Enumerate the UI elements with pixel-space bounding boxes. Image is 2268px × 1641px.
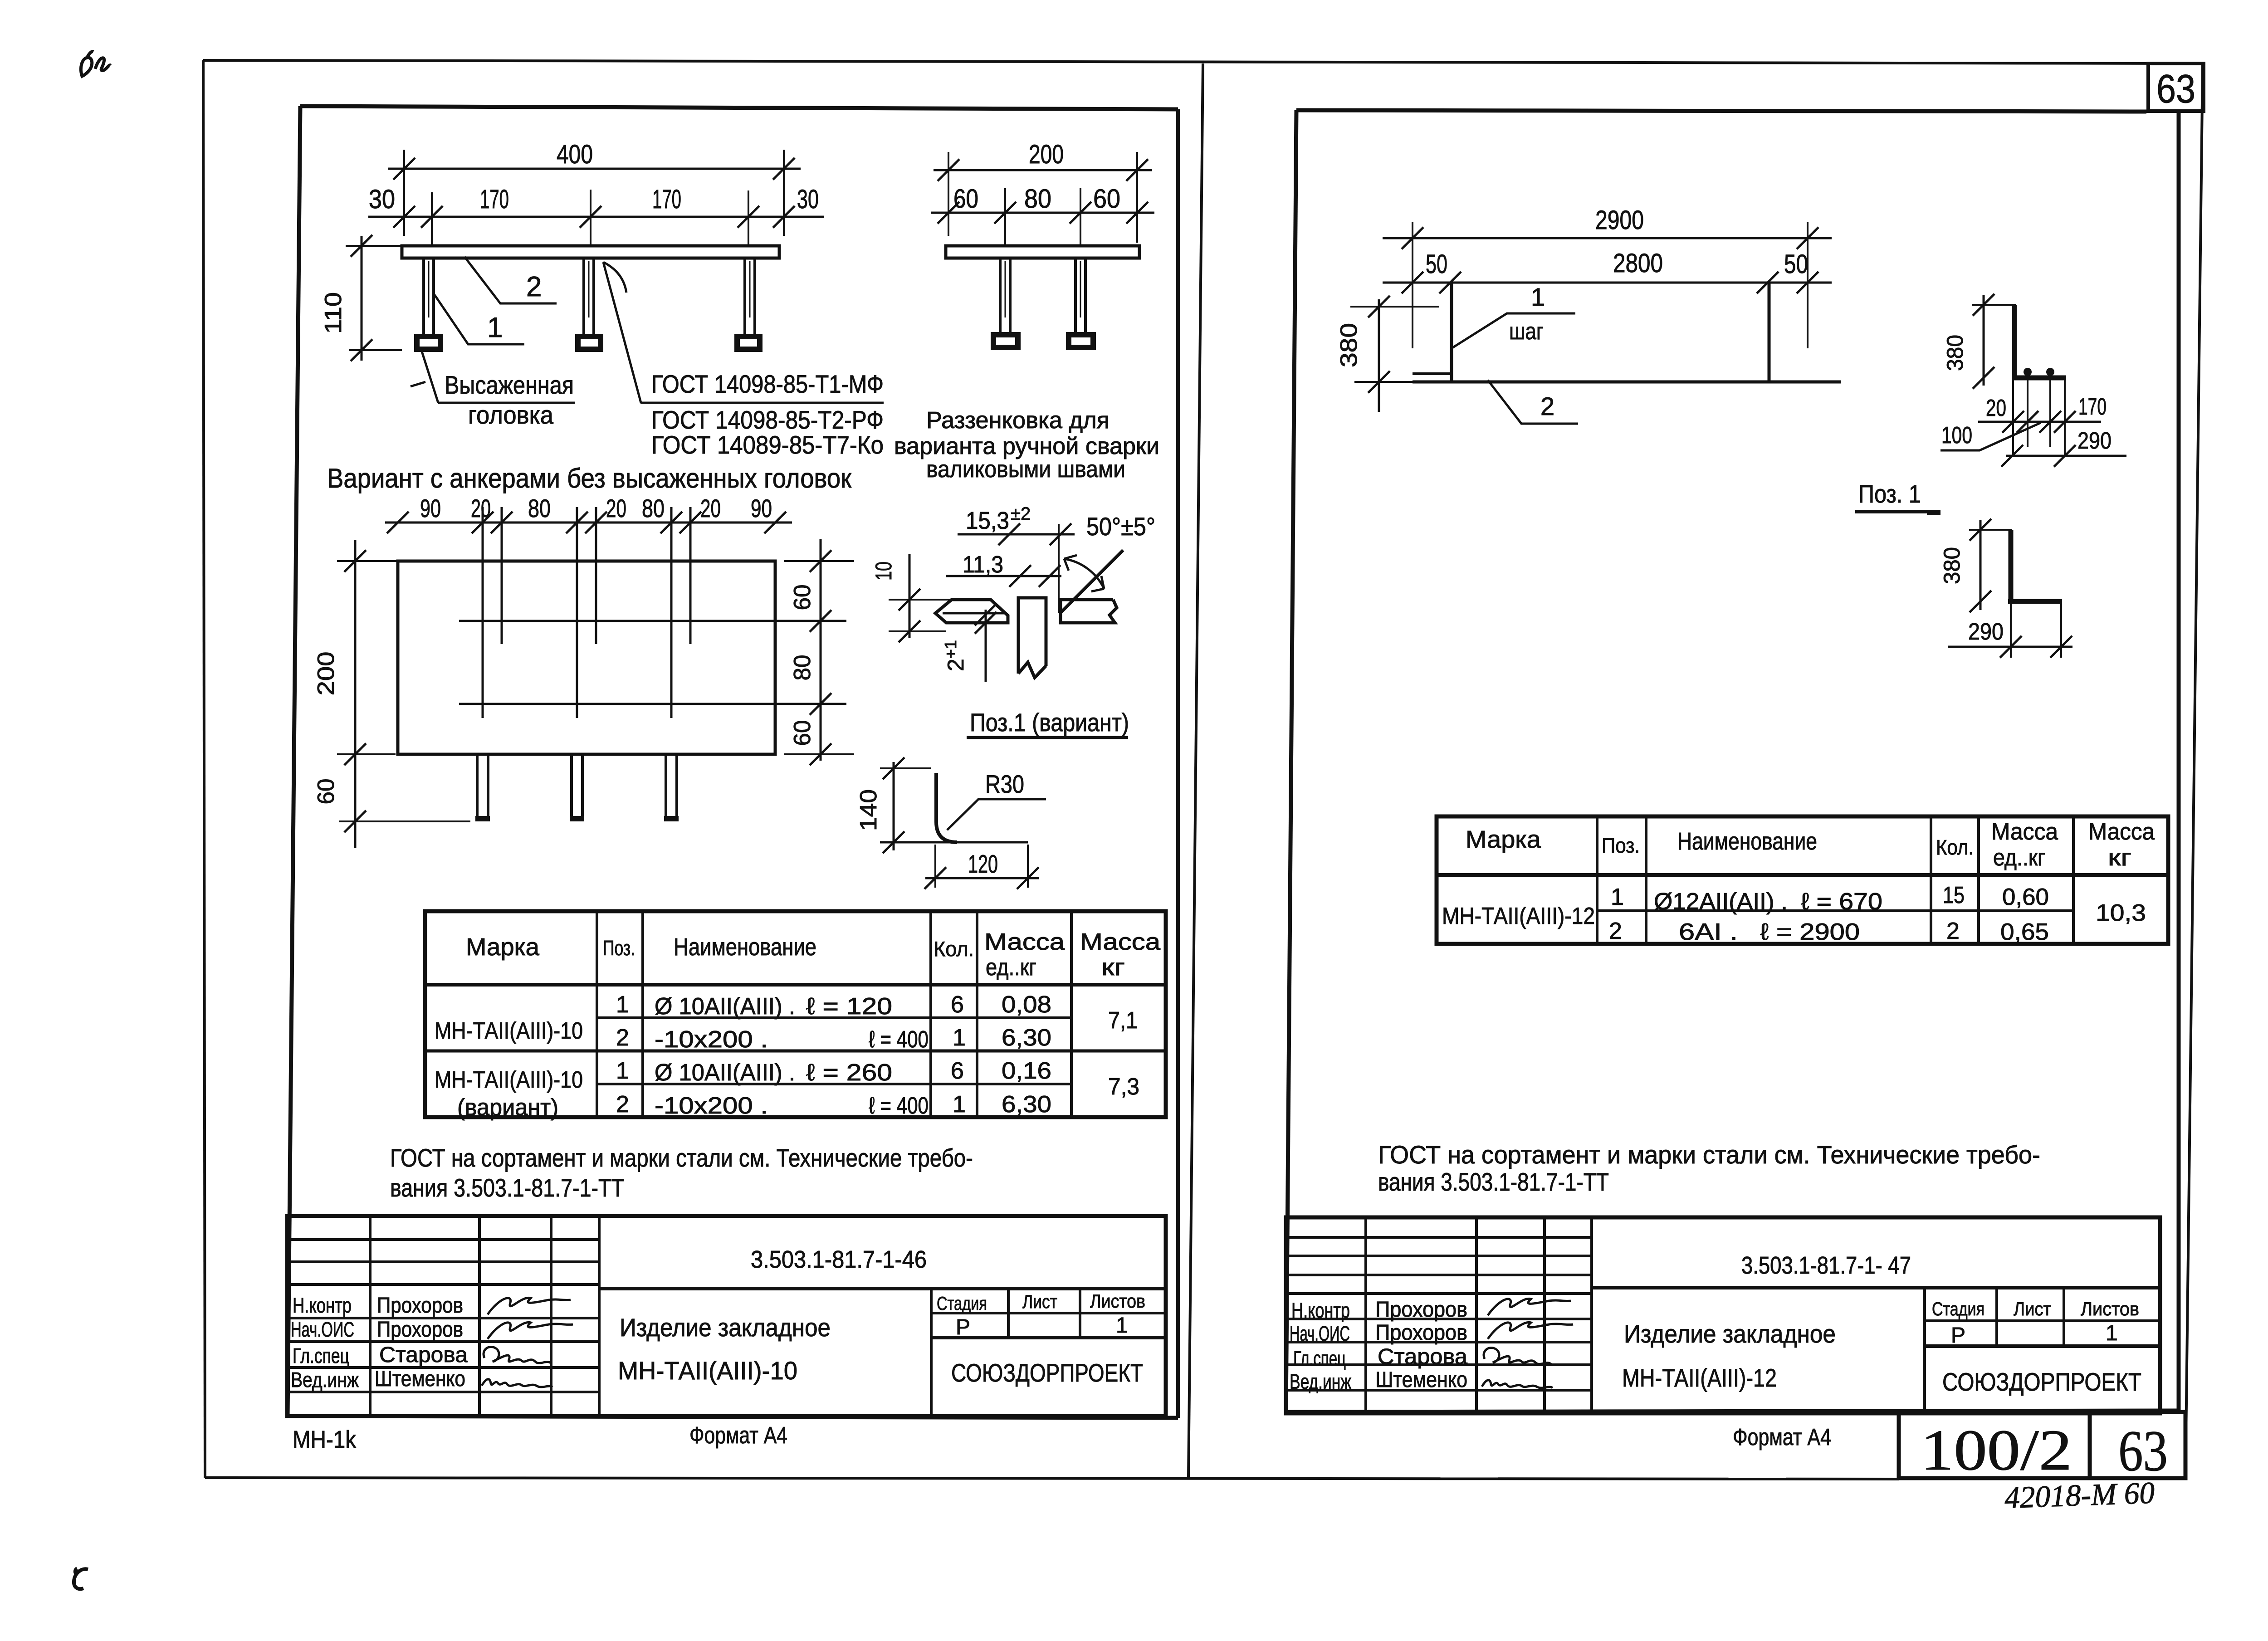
dimension 380 elevation bbox=[1378, 299, 1380, 412]
handwritten mark bottom-left bbox=[74, 1568, 88, 1589]
svg-text:Ø 10АII(АIII) .: Ø 10АII(АIII) . bbox=[655, 1060, 795, 1086]
svg-text:290: 290 bbox=[1968, 619, 2004, 645]
svg-text:1: 1 bbox=[953, 1025, 966, 1051]
svg-text:Н.контр: Н.контр bbox=[293, 1294, 352, 1317]
svg-text:Масса: Масса bbox=[984, 929, 1065, 955]
svg-text:290: 290 bbox=[2077, 428, 2112, 454]
svg-text:200: 200 bbox=[313, 652, 339, 696]
svg-text:0,60: 0,60 bbox=[2002, 884, 2049, 910]
right title block signature 2 bbox=[1488, 1322, 1573, 1339]
svg-text:11,3: 11,3 bbox=[963, 552, 1003, 578]
plate plan view bbox=[398, 561, 775, 754]
sheet divider line bbox=[1188, 63, 1203, 1478]
svg-text:15: 15 bbox=[1943, 882, 1965, 908]
svg-text:R30: R30 bbox=[985, 770, 1024, 798]
svg-text:Прохоров: Прохоров bbox=[377, 1318, 463, 1342]
svg-text:±2: ±2 bbox=[1011, 504, 1031, 524]
svg-text:вания 3.503.1-81.7-1-ТТ: вания 3.503.1-81.7-1-ТТ bbox=[1378, 1167, 1609, 1196]
leader label 2 bbox=[464, 257, 557, 303]
svg-text:2: 2 bbox=[1540, 392, 1554, 420]
dimension 290 upper detail bbox=[2006, 455, 2126, 457]
dimension line 400 bbox=[388, 168, 801, 170]
right title block rows left section bbox=[1286, 1236, 1592, 1239]
anchor stud 2 bbox=[582, 258, 585, 334]
left title block signature 4 bbox=[482, 1379, 552, 1387]
svg-text:Н.контр: Н.контр bbox=[1291, 1299, 1350, 1322]
anchor stud 1 bbox=[422, 258, 425, 334]
leader 100 bbox=[1941, 423, 2041, 450]
left title block right section bbox=[930, 1289, 933, 1417]
svg-text:80: 80 bbox=[528, 494, 551, 523]
svg-text:Наименование: Наименование bbox=[1677, 828, 1817, 855]
svg-text:6АI .: 6АI . bbox=[1679, 919, 1738, 945]
detail bar horizontal leg lower bbox=[2008, 599, 2062, 604]
svg-text:60: 60 bbox=[953, 184, 978, 214]
end view head 1 bbox=[993, 335, 1018, 347]
svg-text:50°±5°: 50°±5° bbox=[1086, 512, 1155, 541]
svg-text:30: 30 bbox=[797, 185, 819, 214]
svg-text:50: 50 bbox=[1784, 249, 1808, 279]
svg-text:Штеменко: Штеменко bbox=[1375, 1368, 1467, 1392]
detail bar vertical leg upper bbox=[2012, 305, 2017, 378]
svg-text:ГОСТ 14098-85-Т1-МФ: ГОСТ 14098-85-Т1-МФ bbox=[651, 370, 884, 398]
handwritten mark top-left bbox=[81, 52, 93, 76]
svg-text:Стадия: Стадия bbox=[937, 1293, 987, 1314]
svg-text:1: 1 bbox=[616, 991, 629, 1018]
svg-text:Формат А4: Формат А4 bbox=[689, 1422, 787, 1449]
sheet outer border left bbox=[203, 60, 205, 1478]
extension lines elevation bbox=[1412, 222, 1413, 348]
anchor tail 3 below plate bbox=[665, 754, 667, 816]
svg-text:МН-ТАII(АIII)-12: МН-ТАII(АIII)-12 bbox=[1622, 1363, 1777, 1392]
left title block number separator bbox=[599, 1287, 1166, 1290]
svg-text:Поз. 1: Поз. 1 bbox=[1858, 479, 1921, 508]
svg-text:ГОСТ 14098-85-Т2-РФ: ГОСТ 14098-85-Т2-РФ bbox=[651, 405, 884, 434]
detail cross rod dots bbox=[2024, 368, 2032, 376]
svg-text:Ø12АII(АII) .: Ø12АII(АII) . bbox=[1654, 889, 1788, 915]
svg-text:Поз.1 (вариант): Поз.1 (вариант) bbox=[970, 708, 1129, 737]
left plate section with countersink bbox=[935, 600, 1008, 623]
dimension 380 lower detail bbox=[1980, 520, 1982, 610]
dimension 290 lower detail bbox=[1948, 646, 2072, 648]
dimension 140 vertical bbox=[893, 762, 895, 850]
svg-text:7,1: 7,1 bbox=[1108, 1007, 1138, 1034]
leader to upset head label bbox=[422, 352, 438, 403]
dimension line 200 end view bbox=[934, 169, 1152, 171]
svg-text:Вед.инж: Вед.инж bbox=[1290, 1370, 1351, 1393]
sheet outer border top bbox=[203, 60, 2203, 63]
extension line angle vertex bbox=[1058, 524, 1060, 613]
svg-text:3.503.1-81.7-1- 47: 3.503.1-81.7-1- 47 bbox=[1741, 1252, 1911, 1279]
leader label 1 shag bbox=[1452, 313, 1575, 348]
inventory box 100/2 bbox=[1899, 1412, 2090, 1478]
svg-text:ГОСТ на сортамент и марки стал: ГОСТ на сортамент и марки стали см. Техн… bbox=[1378, 1140, 2040, 1169]
svg-text:80: 80 bbox=[1024, 184, 1051, 214]
detail bar horizontal leg upper bbox=[2012, 376, 2066, 381]
svg-text:50: 50 bbox=[1426, 249, 1447, 279]
svg-text:Штеменко: Штеменко bbox=[375, 1367, 465, 1391]
svg-text:1: 1 bbox=[2106, 1321, 2118, 1345]
left table column lines bbox=[596, 911, 598, 1117]
svg-text:ℓ = 260: ℓ = 260 bbox=[806, 1060, 892, 1086]
svg-text:3.503.1-81.7-1-46: 3.503.1-81.7-1-46 bbox=[751, 1246, 927, 1273]
svg-text:100/2: 100/2 bbox=[1921, 1418, 2072, 1482]
svg-text:ℓ = 120: ℓ = 120 bbox=[806, 993, 892, 1020]
end view head 2 bbox=[1069, 335, 1093, 347]
svg-text:Раззенковка для: Раззенковка для bbox=[926, 407, 1110, 434]
svg-text:шаг: шаг bbox=[1509, 318, 1544, 345]
svg-text:42018-М 60: 42018-М 60 bbox=[2004, 1475, 2155, 1515]
right title block number separator bbox=[1592, 1286, 2160, 1289]
svg-text:МН-ТАII(АIII)-10: МН-ТАII(АIII)-10 bbox=[435, 1018, 583, 1044]
svg-text:Старова: Старова bbox=[379, 1343, 468, 1367]
svg-text:Р: Р bbox=[956, 1315, 970, 1339]
svg-text:Старова: Старова bbox=[1378, 1345, 1467, 1369]
svg-text:Поз.: Поз. bbox=[1602, 834, 1640, 857]
svg-text:ℓ = 670: ℓ = 670 bbox=[1801, 889, 1882, 915]
svg-text:2: 2 bbox=[616, 1025, 629, 1051]
dimension 110 vertical bbox=[361, 236, 363, 361]
anchor rod section middle bbox=[1018, 598, 1046, 678]
right title block columns bbox=[1364, 1217, 1367, 1413]
plan left dimension 200 and 60 bbox=[354, 540, 357, 848]
anchor head 1 (upset head) bbox=[417, 337, 440, 349]
sheet outer border right bbox=[2185, 63, 2203, 1478]
svg-text:Масса: Масса bbox=[2088, 819, 2155, 845]
svg-text:1: 1 bbox=[616, 1058, 629, 1084]
anchor tail 2 below plate bbox=[570, 754, 573, 816]
page number box 63 top right bbox=[2148, 63, 2204, 111]
svg-text:60: 60 bbox=[313, 779, 339, 805]
dimension 15.3 +-2 bbox=[958, 533, 1075, 536]
svg-text:2: 2 bbox=[1609, 918, 1622, 944]
svg-text:-10x200 .: -10x200 . bbox=[655, 1026, 768, 1053]
svg-text:Марка: Марка bbox=[1466, 826, 1541, 853]
svg-text:100: 100 bbox=[1941, 422, 1972, 449]
right title block frame bbox=[1286, 1217, 2160, 1413]
svg-text:20: 20 bbox=[471, 494, 491, 523]
anchor head 3 bbox=[737, 337, 760, 349]
svg-text:Гл.спец: Гл.спец bbox=[293, 1344, 349, 1367]
svg-text:Наименование: Наименование bbox=[674, 933, 816, 961]
plan anchor lines middle pair bbox=[576, 507, 578, 718]
svg-text:Кол.: Кол. bbox=[1936, 835, 1974, 859]
left sheet inner frame bbox=[300, 106, 1178, 109]
svg-text:15,3: 15,3 bbox=[966, 507, 1009, 534]
dimension 120 bbox=[925, 877, 1039, 879]
angle arc 50 deg bbox=[1064, 559, 1104, 589]
svg-text:63: 63 bbox=[2118, 1419, 2168, 1483]
right plate section with bevel weld bbox=[1061, 550, 1123, 613]
svg-text:Ø 10АII(АIII) .: Ø 10АII(АIII) . bbox=[655, 993, 795, 1020]
svg-text:кг: кг bbox=[1101, 954, 1125, 981]
svg-text:Гл.спец: Гл.спец bbox=[1293, 1347, 1346, 1370]
svg-text:10: 10 bbox=[871, 562, 896, 581]
svg-text:Марка: Марка bbox=[466, 933, 540, 961]
sheet outer border bottom bbox=[205, 1478, 1899, 1479]
svg-text:6,30: 6,30 bbox=[1002, 1025, 1051, 1051]
svg-text:МН-ТАII(АIII)-10: МН-ТАII(АIII)-10 bbox=[618, 1356, 797, 1385]
svg-text:80: 80 bbox=[789, 655, 816, 681]
svg-text:Масса: Масса bbox=[1991, 819, 2058, 845]
end view stud 2 bbox=[1074, 258, 1077, 332]
svg-text:110: 110 bbox=[320, 292, 347, 334]
svg-text:1: 1 bbox=[487, 312, 503, 343]
left title block columns bbox=[369, 1216, 371, 1417]
plan anchor lines left pair bbox=[482, 507, 484, 718]
left title block frame bbox=[287, 1216, 1166, 1416]
svg-text:кг: кг bbox=[2108, 845, 2131, 871]
end view stud 1 bbox=[999, 258, 1002, 332]
svg-text:170: 170 bbox=[652, 185, 681, 214]
dimension 2900 bbox=[1383, 237, 1832, 239]
svg-text:6: 6 bbox=[951, 1058, 964, 1084]
svg-text:ГОСТ 14089-85-Т7-Ко: ГОСТ 14089-85-Т7-Ко bbox=[651, 430, 884, 459]
svg-text:ГОСТ на сортамент и марки стал: ГОСТ на сортамент и марки стали см. Техн… bbox=[390, 1143, 973, 1172]
svg-text:Нач.ОИС: Нач.ОИС bbox=[1290, 1322, 1350, 1345]
leader label 1 bbox=[435, 295, 524, 344]
svg-text:140: 140 bbox=[855, 789, 882, 831]
leader to GOST weld designations bbox=[603, 262, 641, 403]
svg-text:60: 60 bbox=[789, 720, 816, 746]
svg-text:380: 380 bbox=[1939, 547, 1965, 584]
transverse bar right poz.1 bbox=[1768, 283, 1771, 382]
right table row line bbox=[1597, 909, 2073, 912]
svg-text:Изделие закладное: Изделие закладное bbox=[620, 1313, 831, 1342]
svg-text:1: 1 bbox=[1611, 884, 1624, 910]
extension lines end view bbox=[948, 152, 949, 236]
svg-text:380: 380 bbox=[1336, 323, 1362, 367]
right spec table frame bbox=[1437, 816, 2168, 944]
right table column lines bbox=[1596, 816, 1598, 944]
svg-text:90: 90 bbox=[420, 494, 441, 523]
dimension 11.3 bbox=[946, 575, 1061, 577]
anchor tail 1 below plate bbox=[476, 754, 479, 816]
svg-text:МН-ТАII(АIII)-10: МН-ТАII(АIII)-10 bbox=[435, 1067, 583, 1093]
svg-text:1: 1 bbox=[953, 1091, 966, 1118]
svg-text:60: 60 bbox=[789, 585, 816, 610]
svg-text:0,16: 0,16 bbox=[1002, 1058, 1051, 1084]
plate side view poz.2 bbox=[402, 246, 779, 258]
svg-text:Вед.инж: Вед.инж bbox=[291, 1368, 359, 1392]
svg-text:Кол.: Кол. bbox=[934, 937, 974, 961]
plan anchor lines right pair bbox=[670, 507, 673, 718]
svg-text:0,08: 0,08 bbox=[1002, 991, 1051, 1018]
right title block signature 1 bbox=[1488, 1299, 1571, 1315]
svg-text:Лист: Лист bbox=[2014, 1298, 2051, 1319]
svg-text:20: 20 bbox=[606, 494, 626, 523]
svg-text:МН-1k: МН-1k bbox=[293, 1426, 357, 1453]
leader label 2 elevation bbox=[1488, 380, 1578, 424]
svg-text:2: 2 bbox=[526, 271, 542, 303]
right title block right section bbox=[1923, 1288, 1926, 1413]
svg-text:Листов: Листов bbox=[2081, 1298, 2139, 1319]
right table header line bbox=[1437, 873, 2168, 877]
svg-text:МН-ТАII(АIII)-12: МН-ТАII(АIII)-12 bbox=[1442, 903, 1595, 929]
svg-text:Стадия: Стадия bbox=[1932, 1298, 1984, 1319]
plan dimension line 90-20-80-20-80-20-90 bbox=[385, 522, 792, 524]
plate end view bbox=[946, 246, 1139, 258]
detail hanger lines bbox=[2012, 380, 2014, 455]
svg-text:200: 200 bbox=[1029, 140, 1064, 169]
left title block signature 3 bbox=[484, 1347, 551, 1363]
svg-text:головка: головка bbox=[468, 400, 554, 429]
svg-text:Лист: Лист bbox=[1022, 1291, 1057, 1312]
svg-text:Прохоров: Прохоров bbox=[377, 1294, 463, 1318]
svg-text:170: 170 bbox=[2078, 394, 2107, 420]
left spec table frame bbox=[425, 911, 1166, 1117]
svg-text:60: 60 bbox=[1093, 184, 1120, 214]
svg-text:Формат А4: Формат А4 bbox=[1733, 1424, 1831, 1451]
svg-text:СОЮЗДОРПРОЕКТ: СОЮЗДОРПРОЕКТ bbox=[1942, 1367, 2141, 1396]
dimension 380 upper detail bbox=[1983, 295, 1985, 386]
svg-text:2: 2 bbox=[1946, 918, 1960, 944]
svg-text:90: 90 bbox=[751, 494, 772, 523]
svg-text:Нач.ОИС: Нач.ОИС bbox=[291, 1318, 354, 1341]
plan row line top bbox=[459, 620, 846, 622]
left table header line bbox=[425, 983, 1166, 987]
svg-text:2+1: 2+1 bbox=[941, 640, 968, 671]
svg-text:Изделие закладное: Изделие закладное bbox=[1624, 1319, 1836, 1348]
left title block rows left section bbox=[287, 1238, 599, 1241]
svg-text:120: 120 bbox=[968, 850, 998, 878]
svg-text:Листов: Листов bbox=[1090, 1290, 1145, 1312]
svg-text:ℓ = 400: ℓ = 400 bbox=[869, 1093, 929, 1119]
artifact dash bbox=[1927, 510, 1941, 515]
inventory box 63 bbox=[2090, 1412, 2185, 1478]
svg-text:20: 20 bbox=[1986, 395, 2006, 421]
right title block signature 3 bbox=[1484, 1348, 1551, 1364]
svg-text:ℓ = 2900: ℓ = 2900 bbox=[1760, 919, 1860, 945]
transverse bar left poz.1 bbox=[1450, 283, 1453, 382]
svg-text:-10x200 .: -10x200 . bbox=[655, 1093, 768, 1119]
svg-text:Вариант с анкерами без высажен: Вариант с анкерами без высаженных голово… bbox=[327, 463, 852, 493]
extension lines top drawing bbox=[403, 150, 405, 236]
svg-text:380: 380 bbox=[1942, 335, 1968, 371]
svg-text:(вариант): (вариант) bbox=[457, 1094, 558, 1121]
dimension 10 vertical bbox=[909, 554, 911, 638]
left title block signature 2 bbox=[488, 1322, 573, 1339]
dimension 2800 with 50s bbox=[1383, 282, 1832, 284]
svg-text:400: 400 bbox=[557, 140, 593, 169]
svg-text:ℓ = 400: ℓ = 400 bbox=[869, 1026, 929, 1053]
svg-text:Поз.: Поз. bbox=[603, 936, 635, 960]
svg-text:63: 63 bbox=[2156, 66, 2195, 111]
svg-text:Масса: Масса bbox=[1080, 929, 1160, 955]
svg-text:2800: 2800 bbox=[1613, 249, 1663, 278]
svg-text:80: 80 bbox=[642, 494, 665, 523]
hook bar with R30 bend bbox=[936, 773, 957, 842]
svg-text:ед..кг: ед..кг bbox=[986, 954, 1036, 981]
svg-text:Прохоров: Прохоров bbox=[1375, 1321, 1467, 1345]
svg-text:Высаженная: Высаженная bbox=[445, 371, 574, 399]
anchor head 2 bbox=[578, 337, 601, 349]
left table row lines bbox=[597, 1016, 1071, 1019]
plan right dimension 60-80-60 bbox=[820, 539, 822, 761]
svg-text:30: 30 bbox=[369, 185, 395, 214]
svg-text:1: 1 bbox=[1531, 283, 1545, 311]
detail bar vertical leg lower bbox=[2009, 530, 2014, 601]
svg-text:20: 20 bbox=[700, 494, 721, 523]
svg-text:2: 2 bbox=[616, 1091, 629, 1118]
right title block signature 4 bbox=[1482, 1380, 1553, 1388]
right sheet inner frame bbox=[1296, 110, 2146, 112]
dimension line 30-170-170-30 bbox=[368, 216, 824, 218]
svg-text:7,3: 7,3 bbox=[1108, 1074, 1139, 1100]
svg-text:10,3: 10,3 bbox=[2096, 900, 2146, 926]
dimension line 60-80-60 bbox=[931, 212, 1154, 214]
svg-text:0,65: 0,65 bbox=[2000, 919, 2049, 945]
svg-text:варианта ручной сварки: варианта ручной сварки bbox=[894, 433, 1159, 459]
svg-text:2900: 2900 bbox=[1595, 205, 1644, 235]
dimension 2+1 bbox=[985, 610, 987, 682]
svg-text:валиковыми швами: валиковыми швами bbox=[926, 456, 1125, 483]
anchor stud 3 bbox=[743, 258, 746, 334]
svg-text:6: 6 bbox=[951, 991, 964, 1018]
svg-text:170: 170 bbox=[480, 185, 509, 214]
svg-text:6,30: 6,30 bbox=[1002, 1091, 1051, 1118]
left title block signature 1 bbox=[488, 1298, 571, 1314]
svg-text:СОЮЗДОРПРОЕКТ: СОЮЗДОРПРОЕКТ bbox=[951, 1358, 1143, 1387]
plan row line bottom bbox=[459, 703, 846, 705]
dimension 20-170 upper detail bbox=[1978, 421, 2101, 423]
svg-text:ед..кг: ед..кг bbox=[1993, 845, 2045, 871]
svg-text:вания 3.503.1-81.7-1-ТТ: вания 3.503.1-81.7-1-ТТ bbox=[390, 1173, 624, 1202]
svg-text:Р: Р bbox=[1951, 1324, 1965, 1348]
svg-text:1: 1 bbox=[1116, 1314, 1128, 1338]
svg-text:Прохоров: Прохоров bbox=[1375, 1298, 1467, 1322]
leader R30 bbox=[947, 799, 1046, 830]
longitudinal bar poz.2 bbox=[1413, 381, 1841, 384]
